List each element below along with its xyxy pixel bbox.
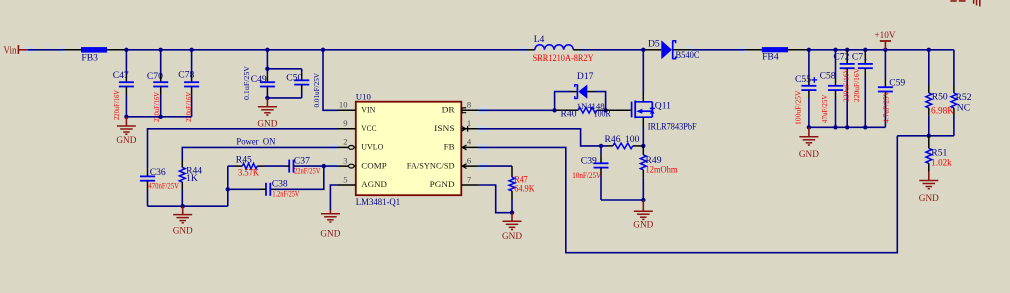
svg-text:D5: D5: [648, 39, 660, 50]
pin 9 VCC (left): [338, 118, 377, 133]
svg-text:PGND: PGND: [430, 179, 455, 189]
pin 8 DR (right): [442, 100, 479, 115]
ground GND input caps: [116, 117, 136, 146]
svg-text:0.1uF/25V: 0.1uF/25V: [242, 65, 251, 100]
ground GND output caps: [799, 127, 819, 160]
svg-text:C38: C38: [272, 179, 288, 190]
wire Q11 drain to switch node: [642, 50, 644, 102]
wire VCC pin 9 to C36: [148, 129, 338, 169]
resistor R52 NC: [951, 50, 972, 136]
node: COMP pin junction to C38: [322, 164, 326, 168]
capacitor C39 10nF/25V: [572, 146, 608, 200]
node: feedback divider junction: [927, 134, 931, 138]
wire Vin rail to C49/C50: [267, 50, 301, 69]
svg-text:R45: R45: [236, 155, 252, 166]
resistor R45 3.57K: [228, 155, 264, 179]
svg-text:IRLR7843PbF: IRLR7843PbF: [648, 121, 697, 132]
svg-text:100: 100: [625, 134, 640, 145]
resistor R40 100R: [555, 108, 612, 120]
svg-text:C59: C59: [889, 77, 905, 88]
svg-text:NC: NC: [957, 103, 970, 114]
svg-text:3: 3: [343, 155, 347, 165]
pin 4 FB (right): [444, 137, 479, 152]
svg-text:220uF/16V: 220uF/16V: [112, 89, 121, 120]
ground GND R47: [502, 213, 522, 242]
svg-text:C47: C47: [113, 70, 129, 81]
svg-text:VCC: VCC: [361, 123, 376, 133]
node: Vin rail junction to VIN pin: [321, 48, 325, 52]
svg-text:COMP: COMP: [361, 160, 387, 170]
svg-text:9: 9: [343, 118, 347, 128]
port Vin: [4, 45, 28, 57]
node: cap bottom junction C70: [159, 115, 163, 119]
node: C49/C50 bottom junction: [265, 96, 269, 100]
svg-text:5: 5: [343, 174, 347, 184]
svg-text:D17: D17: [577, 71, 594, 82]
ferrite bead FB3: [81, 47, 107, 64]
capacitor C47 220uF/16V: [112, 50, 134, 120]
svg-text:C49: C49: [251, 74, 267, 85]
wire D17 bypass branch: [555, 92, 606, 111]
svg-text:47uF/25V: 47uF/25V: [820, 94, 829, 123]
wire PGND pin 7 to ground: [479, 185, 512, 213]
svg-text:1.2nF/25V: 1.2nF/25V: [272, 190, 299, 199]
node: Vin rail junction at C47: [124, 48, 128, 52]
ground GND R44/C36: [173, 206, 193, 236]
node: C49/C50 top junction: [265, 67, 269, 71]
node: Vin rail junction at C78: [189, 48, 193, 52]
wire AGND pin 5 to ground: [330, 185, 337, 210]
svg-text:+10V: +10V: [875, 31, 896, 41]
wire D5 to FB4: [691, 49, 762, 51]
wire ISNS pin 1 to sense network: [479, 129, 608, 146]
capacitor C50 0.01uF/25V: [267, 69, 321, 108]
svg-text:FB: FB: [444, 142, 455, 152]
svg-text:Vin: Vin: [4, 46, 17, 57]
capacitor C49 0.1uF/25V: [242, 65, 275, 100]
node: Vin rail junction at C70: [159, 48, 163, 52]
node: C38 left junction: [226, 187, 230, 191]
svg-text:FA/SYNC/SD: FA/SYNC/SD: [407, 160, 455, 170]
capacitor C71 220uF/16V: [852, 50, 873, 128]
svg-text:Q11: Q11: [655, 100, 671, 111]
svg-text:VIN: VIN: [361, 105, 376, 115]
node: ground bus junction R44: [181, 204, 185, 208]
pin 7 PGND (right): [430, 174, 479, 189]
wire FB4 to output rail: [788, 49, 954, 51]
resistor R44 1K: [179, 160, 202, 207]
svg-text:22nF/25V: 22nF/25V: [294, 167, 321, 176]
capacitor C55 100uF/25V (polarized): [793, 50, 817, 128]
node: Vin rail junction to C49/C50: [265, 48, 269, 52]
wire COMP to C38: [275, 166, 324, 189]
ferrite bead FB4: [762, 47, 788, 62]
node: gate network right junction: [603, 108, 607, 112]
svg-text:470nF/25V: 470nF/25V: [148, 182, 179, 191]
svg-text:GND: GND: [257, 119, 277, 129]
ground GND C49/C50: [257, 98, 277, 129]
pin 5 AGND (left): [338, 174, 387, 189]
svg-text:LM3481-Q1: LM3481-Q1: [356, 197, 400, 208]
wire FB pin 4 to divider (long route): [479, 136, 898, 253]
transistor Q11 IRLR7843PbF: [632, 100, 698, 132]
wire compensation left leg: [227, 166, 229, 206]
svg-text:GND: GND: [320, 230, 340, 240]
wire FB3 to input cap bank: [107, 49, 527, 51]
svg-text:R46: R46: [605, 134, 621, 145]
svg-text:GND: GND: [633, 221, 653, 231]
svg-text:R40: R40: [561, 109, 577, 120]
svg-text:64.9K: 64.9K: [514, 183, 535, 194]
svg-text:1K: 1K: [186, 173, 198, 184]
svg-text:0.01uF/25V: 0.01uF/25V: [312, 72, 321, 107]
svg-text:R52: R52: [956, 92, 972, 103]
svg-text:10nF/25V: 10nF/25V: [572, 171, 601, 180]
wire FA/SYNC/SD pin 6 to R47: [479, 165, 512, 167]
node: out rail junction C72: [845, 48, 849, 52]
node: switch node junction (Q11 drain / D5 anode): [641, 48, 645, 52]
svg-text:L4: L4: [534, 34, 545, 45]
svg-text:DR: DR: [442, 105, 455, 115]
pin 6 FA/SYNC/SD (right): [407, 155, 479, 170]
node: sense junction Q11 source: [641, 144, 645, 148]
diode D5 B540C: [646, 39, 700, 61]
node: out rail junction +10V/C59: [883, 48, 887, 52]
node: sense junction C39: [599, 144, 603, 148]
svg-text:GND: GND: [173, 227, 193, 237]
svg-text:2: 2: [343, 137, 347, 147]
svg-text:1.02k: 1.02k: [931, 157, 952, 168]
svg-text:UVLO: UVLO: [361, 142, 383, 152]
node: out rail junction C71: [863, 48, 867, 52]
pin 10 VIN (left): [338, 100, 376, 115]
svg-text:6: 6: [467, 155, 472, 165]
wire input cap bank bottom bus: [126, 116, 191, 118]
node: out rail junction C58: [833, 48, 837, 52]
svg-text:1N4148: 1N4148: [577, 101, 606, 111]
op-amp U10 LM3481-Q1 controller: [356, 91, 462, 208]
svg-text:C36: C36: [150, 167, 166, 178]
capacitor C70 220uF/16V: [147, 50, 168, 122]
svg-text:C58: C58: [820, 71, 836, 82]
svg-text:C55: C55: [795, 74, 811, 85]
svg-text:100uF/25V: 100uF/25V: [793, 90, 802, 125]
svg-text:C70: C70: [147, 71, 163, 82]
svg-text:C37: C37: [294, 156, 310, 167]
wire DR pin 8 to gate network: [479, 109, 555, 111]
node: R47/PGND junction: [510, 211, 514, 215]
svg-text:B540C: B540C: [676, 50, 700, 61]
svg-text:FB3: FB3: [81, 53, 98, 64]
diode D17 1N4148: [572, 71, 606, 111]
svg-text:AGND: AGND: [361, 179, 387, 189]
node: gate network left junction: [552, 108, 556, 112]
wire Vin to FB3: [28, 49, 81, 51]
ground GND AGND: [320, 210, 340, 240]
svg-text:220uF/16V: 220uF/16V: [852, 67, 861, 102]
svg-text:4.7uF/25V: 4.7uF/25V: [882, 90, 891, 123]
svg-text:U10: U10: [356, 91, 372, 101]
svg-text:3.57K: 3.57K: [238, 167, 259, 178]
wire end markers (pale): [23, 45, 750, 169]
wire L4 to D5/Q11 node: [583, 49, 647, 51]
wire feedback junction row: [897, 135, 954, 137]
svg-text:C72: C72: [833, 51, 849, 62]
pin 3 COMP (left): [338, 155, 387, 170]
svg-text:7: 7: [467, 174, 472, 184]
svg-text:Power ON: Power ON: [236, 136, 275, 147]
capacitor C36 470nF/25V: [140, 167, 179, 206]
svg-text:ISNS: ISNS: [434, 123, 455, 133]
wire COMP pin 3 row: [293, 165, 337, 167]
svg-text:GND: GND: [116, 136, 136, 146]
capacitor C72 220uF/16V: [833, 50, 854, 128]
inductor L4 SRR1210A-8R2Y: [527, 34, 594, 64]
capacitor C37 22nF/25V: [264, 156, 321, 176]
resistor R49 12mOhm: [640, 146, 677, 200]
capacitor C38 1.2nF/25V: [228, 179, 300, 199]
resistor R51 1.02k: [926, 136, 952, 172]
svg-text:220uF/16V: 220uF/16V: [842, 67, 851, 102]
svg-text:C78: C78: [178, 69, 194, 80]
svg-text:GND: GND: [919, 194, 939, 204]
svg-text:8: 8: [467, 100, 471, 110]
svg-text:FB4: FB4: [762, 52, 779, 63]
node: out cap bottom junction C71: [863, 125, 867, 129]
svg-text:C71: C71: [852, 51, 868, 62]
node: out rail junction C55: [807, 48, 811, 52]
power symbol fragment top-right: [950, 0, 980, 6]
svg-text:SRR1210A-8R2Y: SRR1210A-8R2Y: [533, 53, 594, 64]
ground GND R51: [919, 172, 939, 205]
resistor R47 64.9K: [509, 166, 535, 213]
wire Q11 source down: [642, 117, 644, 146]
power +10V: [875, 31, 896, 50]
node: cap bottom junction C47: [124, 115, 128, 119]
wire gate lead: [606, 109, 631, 111]
node: sense ground junction: [641, 198, 645, 202]
wire sense ground bus: [601, 199, 643, 201]
resistor R50 6.98K: [926, 50, 954, 136]
svg-text:GND: GND: [502, 232, 522, 242]
capacitor C59 4.7uF/25V: [878, 50, 905, 128]
resistor R46 100: [605, 134, 644, 149]
node: out cap bottom junction C58: [833, 125, 837, 129]
wire C36/R44 ground bus: [148, 205, 228, 207]
capacitor C78 220uF/16V: [178, 50, 199, 122]
pin 1 ISNS (right): [434, 118, 479, 133]
svg-text:R50: R50: [932, 92, 948, 103]
capacitor C58 47uF/25V: [820, 50, 843, 128]
pin 2 UVLO (left): [338, 137, 384, 152]
node: out cap bottom junction C72: [845, 125, 849, 129]
wire Vin rail to VIN pin 10: [323, 50, 338, 111]
svg-text:GND: GND: [799, 150, 819, 160]
svg-text:C39: C39: [581, 155, 597, 166]
svg-text:10: 10: [339, 100, 348, 110]
node: out cap bottom junction C55: [807, 125, 811, 129]
svg-text:12mOhm: 12mOhm: [646, 165, 678, 176]
ground GND sense: [633, 200, 653, 231]
node: out rail junction R50: [927, 48, 931, 52]
wire UVLO pin 2 (Power ON net): [182, 147, 337, 159]
wire output cap bottom bus: [809, 126, 886, 128]
svg-text:4: 4: [467, 137, 472, 147]
svg-text:C50: C50: [286, 72, 302, 83]
